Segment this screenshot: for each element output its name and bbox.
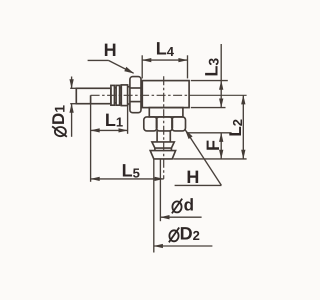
svg-text:D2: D2 <box>180 223 200 243</box>
svg-text:L1: L1 <box>105 110 123 130</box>
svg-text:H: H <box>186 167 199 187</box>
svg-text:L5: L5 <box>122 160 140 180</box>
svg-text:L4: L4 <box>156 39 175 60</box>
svg-text:d: d <box>184 195 194 214</box>
svg-text:L2: L2 <box>226 119 245 137</box>
svg-text:F: F <box>203 140 223 151</box>
svg-text:H: H <box>104 40 117 60</box>
svg-text:L3: L3 <box>202 58 222 77</box>
svg-text:D1: D1 <box>49 105 68 125</box>
